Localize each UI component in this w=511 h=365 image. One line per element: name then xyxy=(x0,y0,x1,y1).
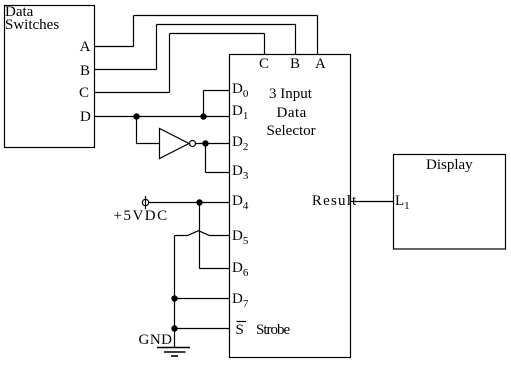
label pin D4 xyxy=(232,194,248,214)
wire B vertical riser xyxy=(156,25,158,70)
wire D2 stub xyxy=(196,143,230,145)
wire strobe stub xyxy=(175,328,230,330)
label switch output D xyxy=(80,110,91,125)
wire D6 stub xyxy=(200,268,230,270)
wire D3 stub xyxy=(206,172,230,174)
wire C top run xyxy=(170,33,265,35)
wire B top run xyxy=(157,24,296,26)
3 Input Data Selector box xyxy=(230,55,351,358)
inverter bubble xyxy=(190,141,196,147)
junction D5-D7 xyxy=(171,295,177,301)
wire A top run xyxy=(134,15,318,17)
label pin D3 xyxy=(232,164,248,184)
wire B horizontal from switch output xyxy=(95,69,157,71)
wire Result xyxy=(351,201,394,203)
label switch output A xyxy=(80,40,91,55)
wire C horizontal from switch output xyxy=(95,92,170,94)
wire A drop to selector pin A xyxy=(317,16,319,55)
ground symbol xyxy=(157,348,190,357)
label switch output C xyxy=(79,86,89,101)
wire D0 vertical xyxy=(203,91,205,117)
+5VDC terminal phi symbol xyxy=(142,196,148,209)
label pin D6 xyxy=(232,261,248,281)
label +5VDC xyxy=(114,209,169,224)
Data Switches box xyxy=(5,6,95,148)
Display box xyxy=(394,155,506,250)
wire A horizontal from switch output xyxy=(95,46,134,48)
wire C drop to selector pin C xyxy=(264,34,266,55)
label pin D2 xyxy=(232,135,248,155)
label L1 xyxy=(395,194,410,214)
label selector pin C xyxy=(259,57,269,72)
label Result xyxy=(312,194,358,209)
label pin D1 xyxy=(232,104,248,124)
junction D4-D6 xyxy=(196,199,202,205)
label strobe pin xyxy=(236,323,244,338)
wire A vertical riser xyxy=(133,16,135,47)
wire D7 stub xyxy=(175,298,230,300)
label pin D7 xyxy=(232,292,248,312)
label selector pin A xyxy=(315,57,326,72)
label selector pin B xyxy=(290,57,300,72)
wire D5 with hop over D6 vertical xyxy=(175,231,230,236)
label Display xyxy=(426,158,473,173)
wire B drop to selector pin B xyxy=(295,25,297,55)
wire D4 from +5VDC xyxy=(149,202,230,204)
wire inverter input horizontal xyxy=(137,143,160,145)
wire D to pin D1 xyxy=(95,116,230,118)
wire ground chain vertical xyxy=(174,236,176,348)
wire inverter input vertical xyxy=(136,117,138,144)
wire D3 vertical xyxy=(205,144,207,173)
wire D0 stub xyxy=(204,90,230,92)
strobe overline xyxy=(237,321,247,323)
label pin D5 xyxy=(232,229,248,249)
wire C vertical riser xyxy=(169,34,171,93)
inverter triangle xyxy=(160,129,190,159)
label 3 Input Data Selector xyxy=(269,87,312,102)
label switch output B xyxy=(80,64,90,79)
junction D-inverter xyxy=(133,113,139,119)
label GND xyxy=(139,333,173,348)
label Data Switches xyxy=(5,5,33,20)
label pin D0 xyxy=(232,82,248,102)
wire D6 vertical xyxy=(199,203,201,269)
junction D-D0 xyxy=(200,113,206,119)
junction strobe-ground xyxy=(171,325,177,331)
junction D2-D3 xyxy=(202,140,208,146)
